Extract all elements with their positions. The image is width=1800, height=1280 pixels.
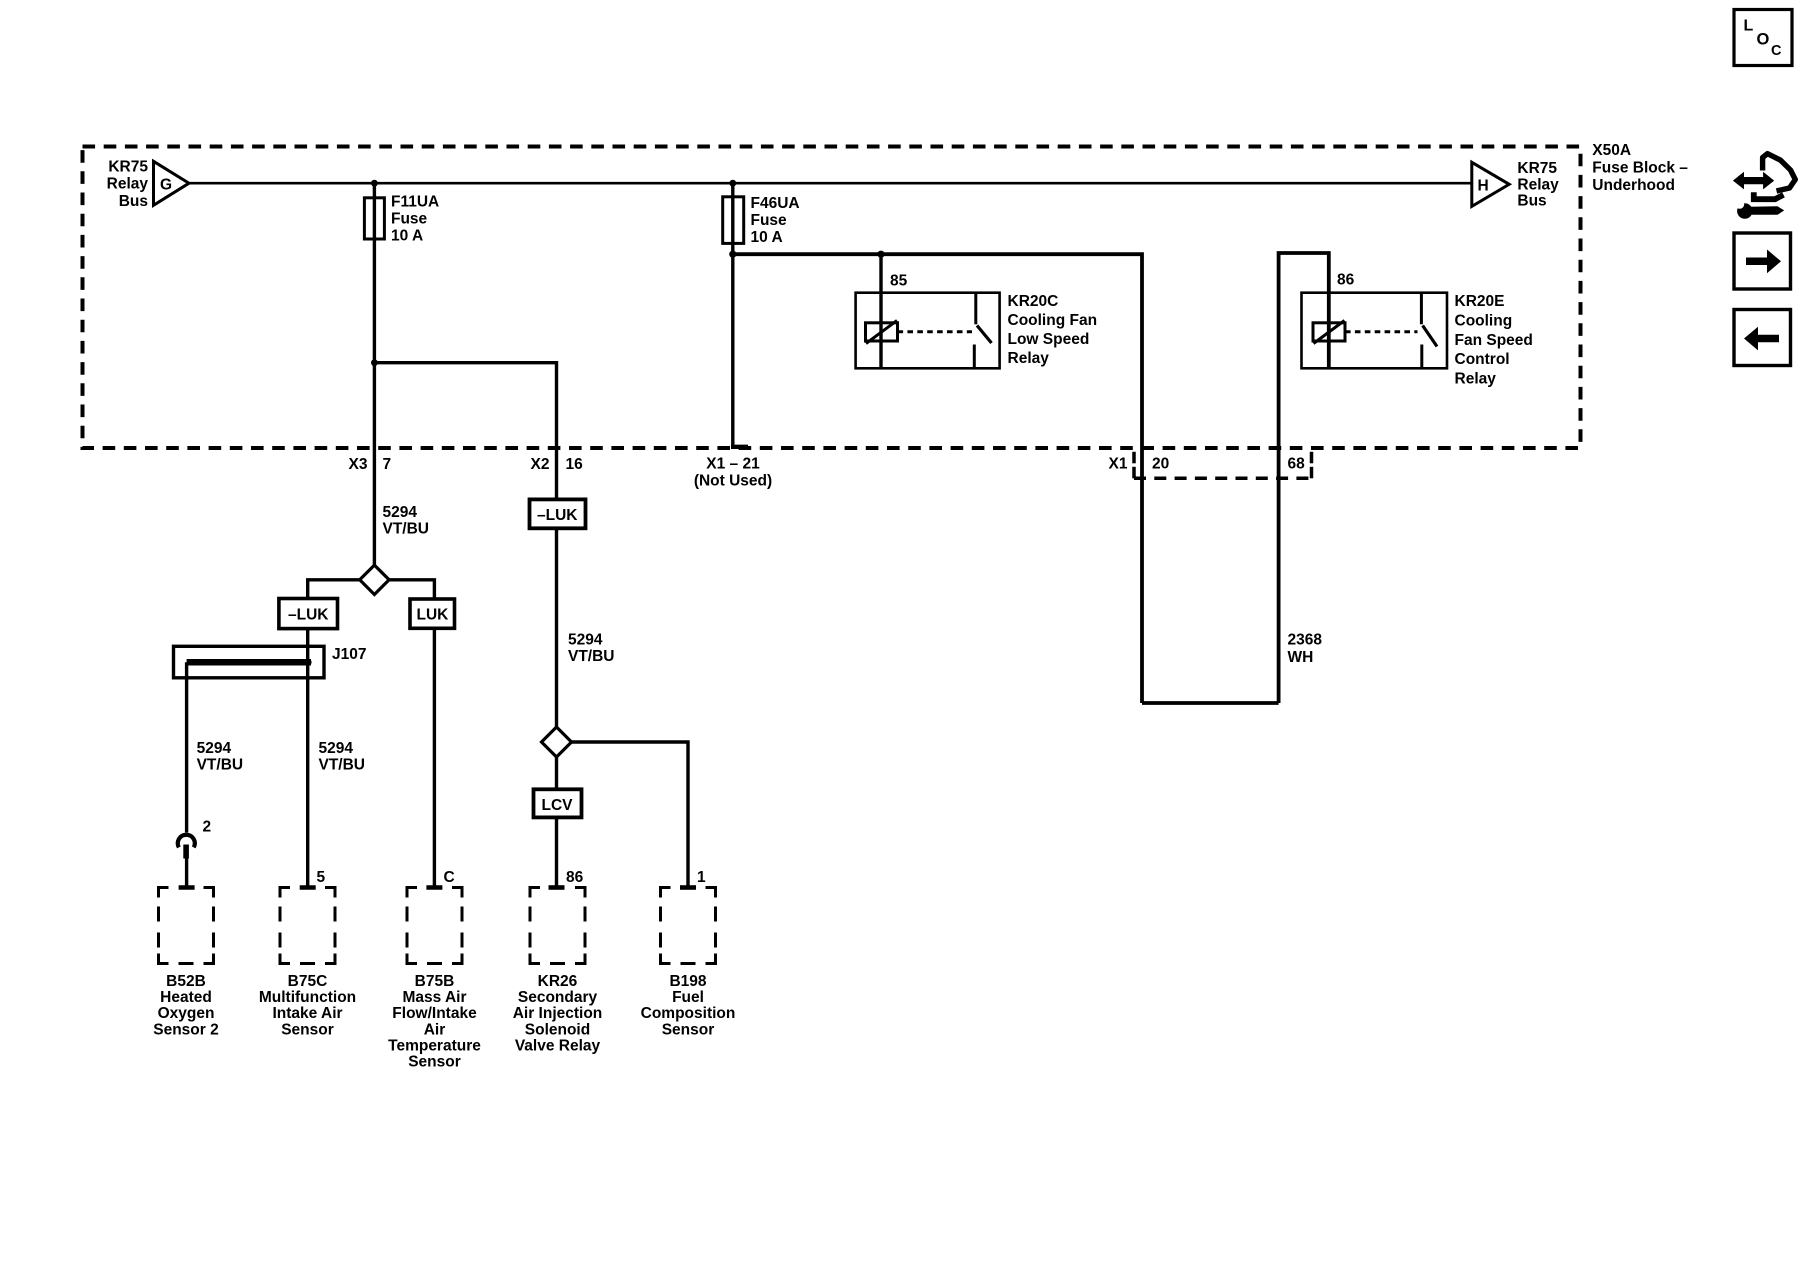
splice pack J107 [174,646,325,678]
wire J107 to B52B pin 2 [185,662,188,832]
wire branch to connector X2 pin 16 [374,363,556,500]
wire feeder from F46UA to connector X1 pin 20 [733,254,1142,703]
pin 86 label (KR26) [566,869,584,886]
svg-text:2: 2 [203,819,212,836]
junction of -LUK wire on J107 bus bar [304,659,311,666]
wire into relay KR20C coil pin 85 [879,254,882,368]
svg-text:5294: 5294 [197,740,232,757]
svg-text:Sensor: Sensor [408,1054,461,1071]
label connector X2 pin 16 [531,456,584,473]
svg-text:Oxygen: Oxygen [158,1005,215,1022]
in-line connector -LUK (left) [279,599,338,629]
svg-text:Mass Air: Mass Air [402,989,466,1006]
junction on bus at fuse F46UA [729,180,736,187]
svg-text:B75B: B75B [415,973,455,990]
svg-text:Bus: Bus [1517,193,1546,210]
wire 2368 WH bottom link pin 20 to pin 68 [1142,701,1279,705]
node H KR75 relay bus (off-page, right) [1472,162,1509,206]
pin 1 label (B198) [697,869,706,886]
junction where X2 feeder branches [371,359,378,366]
svg-text:86: 86 [1337,272,1355,289]
svg-text:Control: Control [1455,351,1510,368]
svg-text:KR75: KR75 [1517,160,1557,177]
wire splice to in-line connector -LUK [308,580,360,599]
svg-text:5294: 5294 [383,504,418,521]
in-line connector LCV [534,789,582,817]
pin 86 label (KR20E) [1337,272,1355,289]
svg-text:Sensor: Sensor [281,1021,334,1038]
pin C label (B75B) [444,869,455,886]
component KR26 Secondary Air Injection Solenoid Valve Relay (dashed box) [530,888,585,964]
svg-text:LCV: LCV [542,797,574,814]
junction on bus at fuse F11UA [371,180,378,187]
in-line connector ring at B52B pin 2 [178,835,195,888]
junction below fuse F46UA [729,251,736,258]
svg-text:Temperature: Temperature [388,1037,481,1054]
label wire 5294 VT/BU (X2 segment) [568,632,615,666]
svg-text:Air Injection: Air Injection [513,1005,603,1022]
svg-text:L: L [1744,18,1754,35]
svg-text:–LUK: –LUK [288,606,329,623]
svg-text:VT/BU: VT/BU [197,757,244,774]
svg-text:WH: WH [1288,649,1314,666]
svg-text:Fuse: Fuse [751,212,788,229]
svg-text:1: 1 [697,869,706,886]
wire LUK to B75B pin C [433,628,436,887]
svg-text:85: 85 [890,272,908,289]
svg-text:10 A: 10 A [391,227,423,244]
svg-text:VT/BU: VT/BU [319,757,366,774]
wire splice down to LCV [555,757,558,789]
label wire 5294 VT/BU (X3-7 segment) [383,504,430,538]
wire KR75 relay bus [188,182,1472,185]
fuse block X50A dashed boundary [83,147,1581,449]
svg-text:KR75: KR75 [108,159,148,176]
svg-text:Valve Relay: Valve Relay [515,1037,601,1054]
svg-text:7: 7 [383,456,392,473]
svg-text:KR20C: KR20C [1008,293,1059,310]
svg-text:Secondary: Secondary [518,989,598,1006]
svg-text:X1 – 21: X1 – 21 [706,456,760,473]
relay KR20C Cooling Fan Low Speed Relay [856,293,1000,369]
svg-text:Multifunction: Multifunction [259,989,356,1006]
splice (diamond) on 5294 VT/BU [360,565,389,594]
svg-text:Relay: Relay [1517,176,1559,193]
svg-text:Composition: Composition [641,1005,736,1022]
svg-text:KR20E: KR20E [1455,293,1505,310]
svg-text:Fuse: Fuse [391,210,428,227]
svg-text:Fuse Block –: Fuse Block – [1592,160,1688,177]
wire LCV to KR26 pin 86 [555,817,558,887]
pin 85 label [890,272,908,289]
svg-text:–LUK: –LUK [537,507,578,524]
svg-text:H: H [1478,178,1489,195]
label KR75 Relay Bus (left) [107,159,149,210]
label B75B Mass Air Flow/Intake Air Temperature Sensor [388,973,481,1071]
wire from bus through fuse F46UA down to connector X1 pin 21 [731,183,748,448]
svg-text:X50A: X50A [1592,142,1631,159]
relay KR20E Cooling Fan Speed Control Relay [1302,293,1448,369]
svg-text:Bus: Bus [119,193,148,210]
svg-text:Sensor: Sensor [662,1021,715,1038]
svg-text:C: C [1771,43,1782,59]
svg-text:Air: Air [424,1021,446,1038]
pin 2 label (B52B) [203,819,212,836]
icon LOC box [1734,10,1792,66]
component B52B Heated Oxygen Sensor 2 (dashed box) [159,888,214,964]
label connector X1 [1109,456,1128,473]
svg-text:Relay: Relay [1455,371,1497,388]
splice (diamond) on X2 5294 VT/BU [542,727,572,757]
wire -LUK down to splice [555,528,558,727]
svg-text:X3: X3 [349,456,368,473]
pin 5 label (B75C) [317,869,326,886]
svg-text:5: 5 [317,869,326,886]
svg-text:B198: B198 [669,973,706,990]
label F46UA Fuse 10 A [751,195,800,246]
svg-text:VT/BU: VT/BU [568,648,615,665]
icon hotspot (double arrow, cursor outline, wrench) [1733,154,1795,219]
component B198 Fuel Composition Sensor (dashed box) [661,888,716,964]
svg-text:Cooling Fan: Cooling Fan [1008,312,1098,329]
in-line connector -LUK (X2 wire) [530,499,586,528]
svg-text:Intake Air: Intake Air [272,1005,342,1022]
svg-text:86: 86 [566,869,584,886]
pin 68 label (X1) [1288,456,1306,473]
svg-text:Sensor 2: Sensor 2 [153,1021,218,1038]
svg-text:Cooling: Cooling [1455,312,1513,329]
svg-text:5294: 5294 [319,740,354,757]
svg-text:F11UA: F11UA [391,194,439,211]
svg-text:Solenoid: Solenoid [525,1021,590,1038]
label KR75 Relay Bus (right) [1517,160,1559,209]
label connector X3 pin 7 [349,456,392,473]
wire splice to in-line connector LUK [389,580,434,599]
label B52B Heated Oxygen Sensor 2 [153,973,218,1038]
node G KR75 relay bus (off-page, left) [154,161,190,205]
label F11UA Fuse 10 A [391,194,439,245]
svg-text:10 A: 10 A [751,229,783,246]
svg-text:Fan Speed: Fan Speed [1455,332,1533,349]
wire from bus through fuse F11UA down to connector X3 pin 7 [373,183,376,566]
svg-text:C: C [444,869,455,886]
svg-text:Heated: Heated [160,989,212,1006]
label KR20C Cooling Fan Low Speed Relay [1008,293,1098,367]
fuse F46UA 10 A [723,197,744,244]
svg-text:X1: X1 [1109,456,1128,473]
svg-text:20: 20 [1152,456,1169,473]
svg-text:68: 68 [1288,456,1306,473]
component B75C Multifunction Intake Air Sensor (dashed box) [280,888,335,964]
pin 20 label (X1) [1152,456,1169,473]
svg-text:Relay: Relay [1008,350,1050,367]
label J107 [332,646,366,663]
svg-text:KR26: KR26 [538,973,578,990]
fuse F11UA 10 A [364,198,384,239]
icon back arrow box [1734,310,1791,366]
svg-text:B75C: B75C [288,973,328,990]
junction feeding relay KR20C coil [877,251,884,258]
label connector X1 pin 21 (Not Used) [694,456,772,490]
svg-text:G: G [160,177,172,194]
svg-text:J107: J107 [332,646,366,663]
svg-text:B52B: B52B [166,973,206,990]
svg-text:Fuel: Fuel [672,989,704,1006]
svg-text:F46UA: F46UA [751,195,800,212]
svg-text:Relay: Relay [107,176,149,193]
label B75C Multifunction Intake Air Sensor [259,973,356,1038]
svg-text:Underhood: Underhood [1592,177,1675,194]
wire splice to B198 pin 1 [572,742,689,888]
label KR26 Secondary Air Injection Solenoid Valve Relay [513,973,603,1054]
svg-text:16: 16 [566,456,584,473]
svg-text:O: O [1757,31,1770,49]
svg-text:VT/BU: VT/BU [383,520,430,537]
label X50A Fuse Block Underhood [1592,142,1688,194]
label KR20E Cooling Fan Speed Control Relay [1455,293,1533,388]
label wire 5294 VT/BU (B52B segment) [197,740,244,774]
svg-text:2368: 2368 [1288,632,1323,649]
label B198 Fuel Composition Sensor [641,973,736,1038]
svg-text:X2: X2 [531,456,550,473]
component B75B Mass Air Flow/Intake Air Temperature Sensor (dashed box) [407,888,462,964]
icon forward arrow box [1734,233,1791,289]
svg-text:LUK: LUK [417,607,450,624]
wire -LUK down into splice pack J107 and on to B75C pin 5 [306,629,309,888]
svg-text:Low Speed: Low Speed [1008,331,1090,348]
svg-text:(Not Used): (Not Used) [694,473,772,490]
in-line connector LUK [410,599,455,628]
wire 2368 WH up and into relay KR20E coil pin 86 [1279,253,1329,703]
svg-text:5294: 5294 [568,632,603,649]
label wire 5294 VT/BU (B75C segment) [319,740,366,774]
svg-text:Flow/Intake: Flow/Intake [392,1005,477,1022]
connector X1 dashed outline [1134,452,1313,479]
label wire 2368 WH [1288,632,1323,667]
